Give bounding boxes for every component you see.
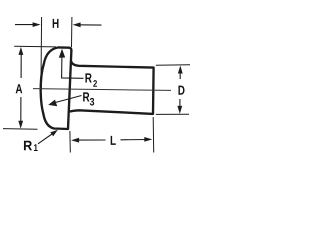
wire: A dimension line with arrows — [18, 47, 23, 129]
wire: A bottom extension line — [3, 128, 38, 131]
node: R1 label — [24, 141, 32, 150]
node: R2 label — [85, 73, 91, 82]
node: R3 label — [83, 92, 89, 101]
wire: L right extension line — [152, 117, 155, 153]
leader R2: vertical arrow to head top corner — [59, 49, 84, 79]
wire: D bottom extension line — [156, 113, 189, 115]
wire: L dimension line with arrows — [71, 137, 152, 143]
node: D label — [178, 86, 184, 95]
centerline of shank — [33, 89, 171, 91]
wire: D top extension line — [156, 64, 190, 66]
leader R1: diagonal arrow to head bottom corner radius — [38, 130, 58, 144]
wire: D dimension line with arrows — [177, 66, 182, 114]
wire: H left extension line — [40, 17, 43, 80]
wire: H dimension right arrow — [73, 22, 102, 27]
wire: H dimension left arrow — [15, 22, 41, 27]
rivet head outline — [41, 47, 72, 129]
wire: L left extension line — [69, 131, 71, 153]
node: A label — [16, 84, 23, 93]
rivet shank outline — [70, 61, 154, 114]
wire: A top extension line — [14, 45, 56, 48]
node: L label — [111, 136, 116, 145]
leader R3: diagonal arrow to dome curve — [48, 96, 81, 107]
wire: H right extension line — [71, 17, 73, 47]
node: H label — [53, 19, 59, 28]
